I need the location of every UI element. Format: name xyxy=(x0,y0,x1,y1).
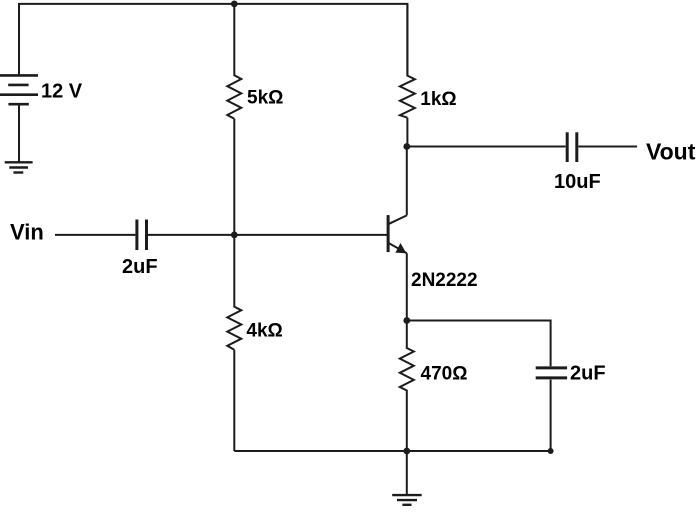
svg-text:Vout: Vout xyxy=(646,139,696,165)
svg-text:2N2222: 2N2222 xyxy=(411,270,478,291)
wire R4 to bottom rail xyxy=(406,397,408,451)
label 2uF bypass xyxy=(570,363,606,385)
label 10uF xyxy=(554,171,601,193)
svg-text:Vin: Vin xyxy=(10,219,44,244)
label 2N2222 xyxy=(411,270,478,291)
resistor R3 4k xyxy=(227,235,241,350)
wire R1 to base node xyxy=(233,119,235,235)
wire R2 to collector node xyxy=(406,118,408,147)
wire emitter node to C3 branch xyxy=(407,321,551,367)
node collector junction xyxy=(403,143,410,150)
node top junction xyxy=(231,1,238,8)
svg-text:2uF: 2uF xyxy=(122,256,158,278)
wire top rail xyxy=(19,4,407,76)
capacitor C3 2uF bypass xyxy=(536,368,567,378)
wire C2 to Vout xyxy=(578,146,637,148)
label Vin xyxy=(10,219,44,244)
svg-text:470Ω: 470Ω xyxy=(421,363,468,384)
svg-text:10uF: 10uF xyxy=(554,171,601,193)
node emitter junction xyxy=(403,317,410,324)
label 1kOhm xyxy=(420,89,456,110)
label Vout xyxy=(646,139,696,165)
svg-text:5kΩ: 5kΩ xyxy=(247,88,283,109)
node base junction xyxy=(231,232,238,239)
label 470Ohm xyxy=(421,363,468,384)
wire C1 to base node xyxy=(148,234,234,236)
wire bottom rail xyxy=(234,450,550,452)
label 2uF input xyxy=(122,256,158,278)
svg-text:2uF: 2uF xyxy=(570,363,606,385)
wire battery to ground xyxy=(18,104,20,161)
capacitor C1 2uF xyxy=(137,220,147,251)
wire base node to Q1 base xyxy=(234,234,388,236)
svg-text:1kΩ: 1kΩ xyxy=(420,89,456,110)
wire bottom node to ground xyxy=(406,451,408,495)
wire Q1 emitter down xyxy=(406,253,408,320)
resistor R2 1k xyxy=(400,4,415,118)
wire C3 to bottom rail xyxy=(550,380,552,451)
resistor R4 470 xyxy=(400,321,414,398)
svg-text:12 V: 12 V xyxy=(41,81,83,103)
ground main xyxy=(392,495,422,505)
label 12 V xyxy=(41,81,83,103)
wire collector node to C2 xyxy=(407,146,566,148)
label 4kOhm xyxy=(246,321,282,342)
node bottom junction xyxy=(403,448,410,455)
transistor Q1 2N2222 xyxy=(388,215,407,253)
label 5kOhm xyxy=(247,88,283,109)
battery V1 xyxy=(0,75,38,104)
svg-text:4kΩ: 4kΩ xyxy=(246,321,282,342)
ground battery xyxy=(5,162,33,172)
wire R3 to bottom rail xyxy=(233,350,235,451)
node bottom right junction xyxy=(548,448,554,454)
wire Vin to C1 xyxy=(55,234,135,236)
resistor R1 5k xyxy=(227,4,241,119)
wire collector node to Q1 collector xyxy=(406,147,408,216)
capacitor C2 10uF xyxy=(567,132,577,162)
